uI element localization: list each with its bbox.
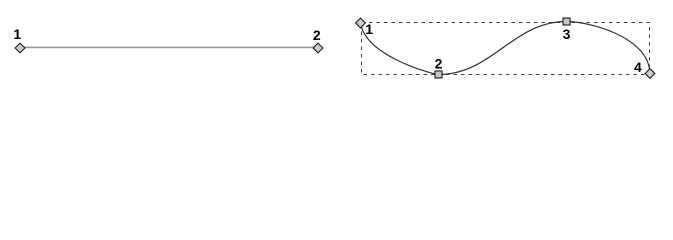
node 3 (curve control square) [563,18,570,25]
node 1 (curve start diamond) [356,18,366,28]
svg-text:2: 2 [435,56,443,72]
svg-text:4: 4 [634,59,642,75]
svg-text:2: 2 [313,27,321,43]
svg-text:3: 3 [563,26,571,42]
node 2 (curve control square) [435,71,442,78]
wire: curved path through nodes 1-4 [361,22,651,75]
node 1 (left figure anchor diamond) [15,43,25,53]
svg-text:1: 1 [13,26,21,42]
selection bounding box (dashed) [362,23,650,75]
node 4 (curve end diamond) [645,69,655,79]
wire: straight line segment between node 1 and node 2 [20,46,318,48]
svg-text:1: 1 [365,21,373,37]
node 2 (left figure anchor diamond) [313,43,323,53]
